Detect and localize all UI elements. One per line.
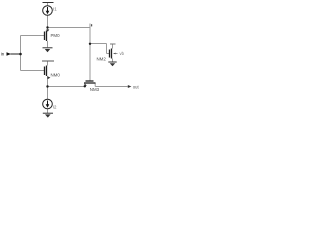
svg-text:NM3: NM3 [90,87,100,92]
svg-text:NM0: NM0 [51,73,61,78]
svg-text:I2: I2 [53,105,57,110]
svg-text:I1: I1 [53,7,57,12]
svg-text:NM2: NM2 [97,57,107,62]
svg-text:in: in [1,52,5,57]
svg-text:PM0: PM0 [51,33,61,38]
svg-text:vb: vb [120,51,125,56]
svg-text:out: out [133,85,140,90]
